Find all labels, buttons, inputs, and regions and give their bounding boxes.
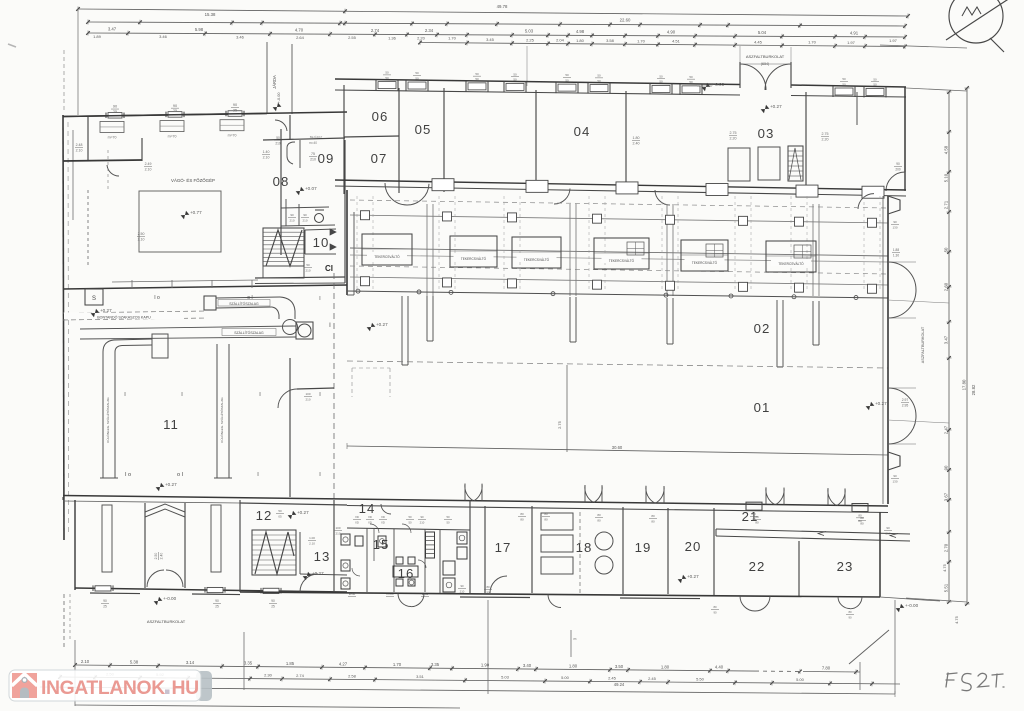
svg-text:XD: XD — [368, 515, 372, 519]
svg-text:210: 210 — [305, 397, 310, 401]
height mark outside band — [702, 83, 711, 91]
svg-text:2.10: 2.10 — [138, 237, 145, 241]
bottom chain 4 short — [75, 705, 460, 708]
svg-text:1.70: 1.70 — [393, 662, 402, 667]
svg-text:80: 80 — [544, 517, 548, 521]
bottom dimension chain 1 — [75, 665, 755, 671]
svg-text:o I: o I — [177, 472, 184, 478]
svg-text:2.25: 2.25 — [526, 37, 535, 42]
svg-text:TEKERCSVÁLTÓ: TEKERCSVÁLTÓ — [692, 260, 718, 265]
svg-text:3.51: 3.51 — [416, 674, 425, 679]
svg-text:75: 75 — [311, 152, 315, 156]
svg-text:50: 50 — [415, 71, 419, 75]
svg-text:13: 13 — [314, 549, 331, 564]
right wall vent upper — [888, 196, 900, 229]
small wc cells below 08 — [281, 199, 335, 226]
svg-text:50: 50 — [475, 72, 479, 76]
svg-text:90: 90 — [420, 515, 424, 519]
svg-text:5.10: 5.10 — [944, 173, 949, 182]
conveyor band vertical left — [100, 334, 168, 478]
top dimension chain 2 — [86, 19, 907, 28]
svg-text:23: 23 — [837, 559, 854, 574]
rooms 22 23 divider — [580, 512, 799, 596]
sanitary fixtures rooms 14-16 — [341, 532, 467, 592]
svg-text:90: 90 — [113, 105, 117, 109]
band right wall and door — [886, 87, 905, 191]
svg-text:TEKERCSVÁLTÓ: TEKERCSVÁLTÓ — [524, 257, 550, 262]
svg-text:+0.27: +0.27 — [687, 574, 699, 579]
svg-text:5.04: 5.04 — [758, 30, 767, 35]
svg-text:2.48: 2.48 — [76, 143, 83, 147]
svg-text:25: 25 — [113, 110, 117, 114]
svg-text:3.14: 3.14 — [186, 660, 195, 665]
svg-text:90: 90 — [233, 103, 237, 107]
svg-text:05: 05 — [278, 514, 282, 518]
svg-text:m: m — [574, 637, 577, 641]
svg-text:1.97: 1.97 — [847, 40, 856, 45]
svg-text:07: 07 — [371, 151, 388, 166]
svg-text:+0.27: +0.27 — [297, 510, 309, 515]
machine hall columns row 2 — [361, 277, 877, 294]
right chain ties — [880, 38, 967, 602]
svg-text:+0.77: +0.77 — [190, 210, 202, 215]
svg-text:130: 130 — [892, 479, 897, 483]
svg-text:50: 50 — [446, 520, 450, 524]
svg-text:50: 50 — [278, 509, 282, 513]
watermark ingatlanok.hu — [9, 670, 212, 701]
roof posts through machine hall — [427, 204, 819, 296]
svg-text:50: 50 — [513, 72, 517, 76]
svg-text:KÜLÖNLEG. SZÁLLÍTÓSZALAG: KÜLÖNLEG. SZÁLLÍTÓSZALAG — [219, 397, 224, 443]
svg-text:ASZFALTBURKOLAT: ASZFALTBURKOLAT — [147, 619, 186, 624]
svg-text:+0.27: +0.27 — [100, 308, 112, 313]
svg-text:2.97: 2.97 — [902, 398, 909, 402]
svg-text:25: 25 — [103, 604, 107, 608]
entrance extension lines — [740, 46, 791, 62]
hall 01 dashed corner detail — [352, 368, 390, 397]
machine hall column verticals dashed — [357, 196, 880, 292]
svg-text:2.75: 2.75 — [730, 131, 737, 135]
fixture CI below room 10 — [255, 263, 345, 284]
height mark conveyor — [91, 309, 100, 317]
svg-text:50: 50 — [385, 71, 389, 75]
svg-text:49.24: 49.24 — [614, 682, 625, 687]
svg-text:5.00: 5.00 — [561, 675, 570, 680]
height mark room 02 — [367, 323, 376, 331]
svg-text:02: 02 — [754, 321, 771, 336]
svg-text:80: 80 — [651, 519, 655, 523]
svg-text:50: 50 — [408, 520, 412, 524]
svg-text:80: 80 — [520, 517, 524, 521]
bottom wall door arcs down — [398, 585, 862, 619]
svg-text:90: 90 — [886, 526, 890, 530]
left wall dashed extension below dock — [64, 594, 70, 648]
svg-text:50: 50 — [842, 82, 846, 86]
machine hall left wall — [347, 190, 354, 295]
height marks rooms 12 13 — [276, 509, 342, 580]
svg-text:130: 130 — [892, 225, 897, 229]
svg-text:2.74: 2.74 — [371, 28, 380, 33]
svg-text:5.51: 5.51 — [944, 583, 949, 592]
left block top wall — [63, 112, 347, 117]
svg-text:80: 80 — [597, 513, 601, 517]
svg-text:50: 50 — [597, 79, 601, 83]
svg-text:1.70: 1.70 — [637, 38, 646, 43]
svg-text:2.95: 2.95 — [902, 403, 909, 407]
left outer wall — [63, 115, 73, 540]
svg-text:50: 50 — [446, 515, 450, 519]
height mark rooms 22 — [678, 575, 687, 583]
svg-text:JÁRDA: JÁRDA — [272, 75, 277, 89]
svg-text:11: 11 — [163, 417, 179, 432]
room 02 posts — [402, 296, 819, 367]
svg-text:30.60: 30.60 — [612, 445, 623, 450]
svg-text:17: 17 — [495, 540, 512, 555]
svg-text:S: S — [92, 296, 96, 302]
svg-text:1.80: 1.80 — [633, 136, 640, 140]
svg-text:+0.27: +0.27 — [875, 401, 887, 406]
svg-text:1.70: 1.70 — [808, 40, 817, 45]
room 09 — [263, 135, 345, 283]
svg-text:1.80: 1.80 — [661, 664, 670, 669]
svg-text:90: 90 — [173, 104, 177, 108]
svg-text:210: 210 — [460, 589, 465, 593]
band bottom wall with pillars — [335, 179, 906, 199]
left block bottom wall — [63, 280, 347, 289]
svg-text:22: 22 — [749, 559, 766, 574]
svg-text:2.30: 2.30 — [264, 673, 273, 678]
svg-text:90: 90 — [103, 599, 107, 603]
svg-text:TEKERCSVÁLTÓ: TEKERCSVÁLTÓ — [461, 256, 487, 261]
svg-text:4.27: 4.27 — [339, 661, 348, 666]
door arc left small room — [107, 165, 119, 176]
room 03 equipment rects — [728, 147, 780, 181]
svg-text:m=70: m=70 — [108, 135, 117, 139]
svg-text:3.47: 3.47 — [944, 335, 949, 344]
svg-text:90: 90 — [893, 474, 897, 478]
shelf line rooms 21-23 — [716, 529, 910, 541]
svg-text:50: 50 — [689, 80, 693, 84]
svg-text:1.97: 1.97 — [889, 38, 898, 43]
height mark dock — [154, 597, 163, 605]
svg-text:5.00: 5.00 — [796, 677, 805, 682]
svg-text:2.34: 2.34 — [425, 28, 434, 33]
room 02 bottom dashed line — [347, 361, 888, 368]
svg-text:2.45: 2.45 — [648, 676, 657, 681]
svg-text:50: 50 — [659, 74, 663, 78]
north symbol — [946, 0, 1010, 52]
svg-text:100: 100 — [305, 392, 310, 396]
svg-text:80: 80 — [755, 515, 759, 519]
svg-text:80: 80 — [860, 516, 864, 520]
svg-text:50: 50 — [415, 76, 419, 80]
column marks room 11 — [124, 392, 321, 478]
svg-text:3.58: 3.58 — [606, 38, 615, 43]
rooms 12 13 block — [240, 500, 347, 592]
conveyor 2 — [80, 322, 331, 339]
svg-text:20: 20 — [685, 539, 702, 554]
door arc room 14 — [381, 504, 391, 514]
svg-text:25: 25 — [233, 108, 237, 112]
svg-text:4.51: 4.51 — [672, 39, 681, 44]
svg-text:XD: XD — [355, 520, 359, 524]
height mark courtyard — [273, 103, 282, 111]
bottom band top wall — [63, 496, 888, 513]
svg-text:ASZFALTBURKOLAT: ASZFALTBURKOLAT — [746, 54, 785, 59]
svg-text:17.80: 17.80 — [962, 379, 967, 390]
fixture fracs rooms 14-16 — [348, 515, 466, 596]
svg-text:TEKERCSVÁLTÓ: TEKERCSVÁLTÓ — [609, 258, 635, 263]
svg-text:15.38: 15.38 — [205, 12, 216, 17]
conveyor 1 — [204, 296, 298, 335]
svg-text:210: 210 — [289, 218, 294, 222]
svg-text:2.20: 2.20 — [730, 136, 737, 140]
svg-text:12: 12 — [256, 508, 273, 523]
svg-text:50: 50 — [873, 83, 877, 87]
svg-text:4.98: 4.98 — [576, 29, 585, 34]
svg-text:90: 90 — [290, 213, 294, 217]
svg-text:7.80: 7.80 — [822, 666, 831, 671]
svg-text:3.67: 3.67 — [944, 492, 949, 501]
svg-text:2.10: 2.10 — [145, 167, 152, 171]
right wall double door upper — [888, 248, 916, 318]
svg-text:3.35: 3.35 — [431, 662, 440, 667]
corridor door arc top of 08 — [275, 120, 287, 131]
svg-text:10: 10 — [313, 235, 330, 250]
svg-text:80: 80 — [544, 512, 548, 516]
svg-text:KÜLÖNLEG. SZÁLLÍTÓSZALAG: KÜLÖNLEG. SZÁLLÍTÓSZALAG — [105, 397, 110, 443]
svg-text:INGATLANOK: INGATLANOK — [41, 677, 165, 699]
svg-text:210: 210 — [310, 157, 316, 161]
right wall double door lower — [888, 388, 916, 444]
door arcs rooms 14-16 — [352, 524, 426, 576]
svg-text:1.30: 1.30 — [893, 253, 899, 257]
bontando kapu dashed gate — [63, 311, 207, 320]
svg-text:4.40: 4.40 — [715, 665, 724, 670]
svg-text:50: 50 — [944, 247, 949, 252]
top dimension chain 3 — [86, 27, 907, 41]
svg-text:2.45: 2.45 — [608, 676, 617, 681]
svg-text:2.10: 2.10 — [81, 659, 90, 664]
svg-text:90: 90 — [303, 213, 307, 217]
right dimension chain inner — [948, 92, 950, 602]
svg-text:50: 50 — [385, 76, 389, 80]
bottom dimension chain 3 overall — [40, 682, 895, 697]
svg-text:210: 210 — [335, 531, 340, 535]
svg-text:90: 90 — [944, 465, 949, 470]
band interior walls — [344, 85, 857, 194]
svg-text:04: 04 — [574, 124, 591, 139]
S box — [85, 289, 103, 305]
svg-text:+-0.00: +-0.00 — [905, 603, 919, 608]
svg-text:90: 90 — [460, 584, 464, 588]
dock bottom wall — [75, 585, 347, 608]
svg-text:90: 90 — [713, 610, 717, 614]
vago room outline — [88, 150, 221, 268]
svg-text:25: 25 — [271, 604, 275, 608]
room 03 stairs — [788, 146, 803, 181]
svg-text:15: 15 — [373, 537, 390, 552]
svg-text:50: 50 — [565, 73, 569, 77]
svg-text:I: I — [319, 296, 320, 302]
svg-text:2.40: 2.40 — [633, 141, 640, 145]
svg-text:80: 80 — [848, 610, 852, 614]
svg-text:2.40: 2.40 — [159, 553, 163, 560]
hall 01 interior vertical — [557, 365, 567, 452]
svg-text:25: 25 — [215, 604, 219, 608]
column marks upper row — [154, 295, 320, 302]
svg-text:25: 25 — [173, 109, 177, 113]
chain extension x527 — [526, 46, 528, 86]
courtyard bottom wall with windows — [63, 103, 267, 118]
svg-text:XD: XD — [368, 520, 372, 524]
hatched duct room 16 — [426, 532, 435, 558]
svg-text:4.75: 4.75 — [954, 615, 959, 624]
svg-text:09: 09 — [318, 151, 335, 166]
svg-text:22.60: 22.60 — [620, 18, 631, 23]
svg-text:50: 50 — [408, 515, 412, 519]
svg-text:210: 210 — [302, 218, 307, 222]
asphalt entrance recess — [740, 54, 791, 90]
svg-text:1.70: 1.70 — [448, 36, 457, 41]
svg-text:2.10: 2.10 — [263, 155, 270, 159]
svg-text:4.70: 4.70 — [295, 28, 304, 33]
svg-text:50: 50 — [475, 77, 479, 81]
svg-text:08: 08 — [273, 174, 290, 189]
svg-text:XD: XD — [381, 515, 385, 519]
bottom right leader diagonal — [849, 630, 889, 664]
svg-text:50: 50 — [306, 263, 310, 267]
svg-text:06: 06 — [372, 109, 389, 124]
conveyor band vertical right — [214, 344, 232, 478]
svg-text:3.46: 3.46 — [159, 34, 168, 39]
room 18 equipment — [541, 513, 613, 574]
svg-text:90: 90 — [896, 162, 900, 166]
courtyard dashed left wall — [63, 50, 65, 113]
bottom outer wall right part — [240, 592, 880, 599]
svg-text:2.04: 2.04 — [556, 38, 565, 43]
window sills below courtyard wall — [100, 120, 244, 140]
svg-text:19: 19 — [635, 540, 652, 555]
svg-text:5.38: 5.38 — [130, 660, 139, 665]
svg-text:90: 90 — [848, 615, 852, 619]
svg-text:3.45: 3.45 — [486, 37, 495, 42]
rooms 21-23 top windows — [518, 502, 868, 525]
svg-text:210: 210 — [885, 531, 890, 535]
svg-text:XD: XD — [381, 520, 385, 524]
svg-text:ASZFALTBURKOLAT: ASZFALTBURKOLAT — [921, 326, 925, 363]
svg-text:+0.27: +0.27 — [770, 104, 782, 109]
svg-text:BEJÁRAT: BEJÁRAT — [310, 135, 323, 139]
svg-text:2.49: 2.49 — [145, 162, 152, 166]
svg-text:+-0.00: +-0.00 — [163, 596, 177, 601]
svg-text:I o: I o — [154, 295, 160, 301]
svg-text:2.75: 2.75 — [557, 420, 562, 429]
svg-text:03: 03 — [758, 126, 775, 141]
svg-text:CI: CI — [325, 264, 333, 273]
svg-text:2.10: 2.10 — [309, 541, 315, 545]
svg-text:3.35: 3.35 — [244, 661, 253, 666]
bottom band right wall — [880, 512, 892, 597]
svg-text:2.75: 2.75 — [822, 132, 829, 136]
svg-text:m=70: m=70 — [168, 135, 177, 139]
room 10 walls — [305, 229, 336, 254]
left small room wall — [63, 117, 142, 161]
svg-text:4.75: 4.75 — [942, 563, 947, 572]
right dimension chain outer — [966, 88, 968, 604]
svg-text:2.64: 2.64 — [296, 35, 305, 40]
height mark hall 01 — [866, 402, 875, 410]
room 18 walls — [532, 506, 623, 594]
svg-text:50: 50 — [565, 78, 569, 82]
svg-text:90: 90 — [215, 599, 219, 603]
svg-text:TEKERCSVÁLTÓ: TEKERCSVÁLTÓ — [374, 254, 400, 259]
svg-text:2.10: 2.10 — [76, 148, 83, 152]
svg-text:BONTANDÓ SZAKASZOS KAPU: BONTANDÓ SZAKASZOS KAPU — [97, 315, 151, 320]
svg-text:80: 80 — [597, 518, 601, 522]
svg-text:50: 50 — [689, 75, 693, 79]
dock central bay — [145, 503, 185, 588]
svg-text:80: 80 — [860, 521, 864, 525]
svg-text:1.85: 1.85 — [286, 661, 295, 666]
svg-text:+-0.00: +-0.00 — [277, 93, 281, 104]
jarda sidewalk strip — [267, 42, 292, 114]
FSZT handwritten label — [946, 673, 1004, 691]
svg-text:5.03: 5.03 — [525, 29, 534, 34]
svg-text:+-0.00: +-0.00 — [711, 82, 725, 87]
height mark room 11 — [156, 483, 165, 491]
right chain extra label — [942, 384, 976, 624]
machine hall bottom boundary — [347, 289, 888, 299]
svg-text:18: 18 — [576, 540, 593, 555]
height mark 03 entrance — [761, 105, 770, 113]
svg-text:80: 80 — [713, 605, 717, 609]
right wall vent lower — [888, 452, 900, 483]
svg-text:200: 200 — [895, 167, 901, 171]
top dimension chain 4 right — [418, 37, 907, 49]
door arcs into hall 01 — [465, 484, 845, 506]
svg-text:2.70: 2.70 — [944, 543, 949, 552]
room 17 — [485, 506, 507, 593]
svg-text:80: 80 — [520, 512, 524, 516]
door arc room 13 bottom — [300, 574, 318, 592]
svg-text:3.40: 3.40 — [523, 663, 532, 668]
svg-text:XD: XD — [355, 515, 359, 519]
svg-text:49.78: 49.78 — [497, 4, 508, 9]
loading dock left — [63, 497, 221, 590]
height mark bottom right — [896, 604, 905, 612]
svg-text:TEKERCSVÁLTÓ: TEKERCSVÁLTÓ — [778, 261, 804, 266]
svg-text:2.50: 2.50 — [138, 232, 145, 236]
svg-text:2.47: 2.47 — [944, 425, 949, 434]
svg-text:210: 210 — [305, 268, 310, 272]
svg-text:5.03: 5.03 — [501, 675, 510, 680]
svg-text:90: 90 — [271, 599, 275, 603]
svg-text:+0.07: +0.07 — [305, 186, 317, 191]
svg-text:1.89: 1.89 — [93, 34, 102, 39]
wall between vago and 08 — [281, 115, 290, 255]
svg-text:50: 50 — [513, 78, 517, 82]
svg-text:I o: I o — [125, 472, 131, 478]
svg-text:SZÁLLÍTÓSZALAG: SZÁLLÍTÓSZALAG — [229, 301, 259, 306]
halls right wall — [883, 196, 888, 504]
svg-text:2.71: 2.71 — [944, 200, 949, 209]
svg-text:1.00: 1.00 — [309, 536, 315, 540]
svg-text:05: 05 — [415, 122, 432, 137]
svg-text:50: 50 — [842, 77, 846, 81]
svg-text:1.36: 1.36 — [388, 35, 397, 40]
svg-text:4.45: 4.45 — [754, 39, 763, 44]
